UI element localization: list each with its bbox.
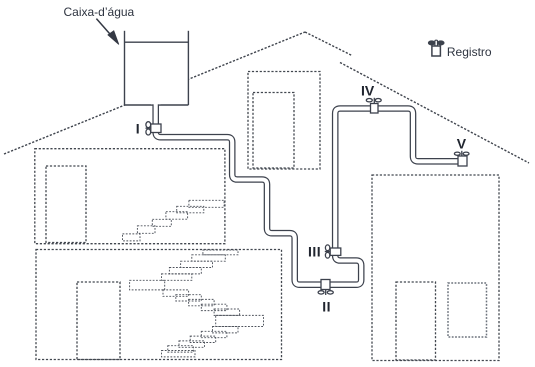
svg-text:Registro: Registro [447,45,492,59]
svg-text:III: III [308,244,321,260]
svg-text:II: II [322,298,331,314]
svg-text:Caixa-d’água: Caixa-d’água [64,5,135,19]
svg-text:I: I [136,121,140,137]
svg-text:IV: IV [361,83,375,99]
svg-text:V: V [457,136,467,152]
